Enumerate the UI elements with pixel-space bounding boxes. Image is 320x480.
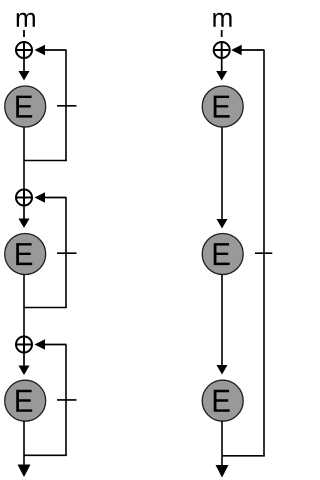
wire X3 to E3 with arrowhead [19,354,30,376]
wire loop bottom 1 [24,160,67,162]
wire m to XOR4 [221,30,223,37]
wire E2 down to X3 [23,275,25,337]
wire loop bottom 2 [24,307,67,309]
block E4 (right cipher top) [202,86,243,127]
block E2 (left cipher) [5,234,46,275]
wire feedback into X2 with arrowhead [35,192,67,203]
block E6 (right cipher bottom) [202,380,243,421]
tick key input 1 [57,105,77,107]
block E1 (left cipher) [5,86,46,127]
wire loop bottom 3 [24,454,67,456]
wire X2 to E2 with arrowhead [19,207,30,229]
wire feedback vertical 1 [65,50,67,161]
tick key input 3 [57,399,77,401]
xor X1 [16,42,32,58]
block E5 (right cipher middle) [202,234,243,275]
wire m to XOR1 [23,30,25,37]
wire feedback into X4 with arrowhead [231,45,264,56]
wire E5 to E6 with arrowhead [217,275,228,375]
tick key input 2 [57,252,77,254]
wire E3 to output arrow [18,421,31,477]
node m (right input label) [213,13,231,27]
wire X4 to E4 with arrowhead [216,59,227,81]
wire feedback vertical right [263,50,265,456]
wire E1 down to X2 [23,127,25,189]
wire feedback vertical 2 [65,198,67,309]
wire E4 to E5 with arrowhead [217,127,228,229]
wire feedback into X1 with arrowhead [35,45,67,56]
tick key input right [255,252,272,254]
block E3 (left cipher) [5,380,46,421]
wire feedback into X3 with arrowhead [35,339,67,350]
wire loop bottom right [222,455,265,457]
wire X1 to E1 with arrowhead [19,59,30,81]
xor X4 [214,42,230,58]
xor X3 [16,337,32,353]
wire E6 to output arrow [216,421,229,477]
xor X2 [16,190,32,206]
node m (left input label) [17,13,35,27]
wire feedback vertical 3 [65,345,67,456]
